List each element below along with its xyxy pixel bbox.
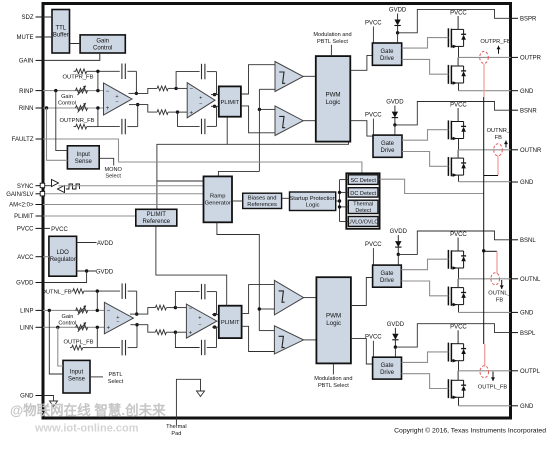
svg-text:−: − bbox=[107, 309, 111, 315]
node A1 output bottom bbox=[136, 103, 139, 106]
wire gate drive 3 to low-side gate bbox=[401, 281, 448, 296]
wire A1 bottom output to A2 bbox=[129, 104, 138, 106]
node GVDD gate drive 2 bbox=[393, 123, 396, 126]
arrow OUTNR_FB bbox=[505, 141, 507, 148]
svg-text:Drive: Drive bbox=[380, 370, 395, 376]
wire LINP input line bbox=[43, 309, 104, 311]
svg-text:PLIMIT: PLIMIT bbox=[147, 212, 167, 218]
red feedback segment OUTNL bbox=[496, 251, 498, 273]
wire RINP input line bbox=[43, 90, 104, 92]
wire Ramp top output to comparator bus bbox=[218, 171, 259, 176]
wire LINN input line bbox=[43, 326, 104, 328]
wire bottom feedback rail opamp A3 bbox=[97, 347, 120, 349]
resistor R4 bottom bbox=[155, 330, 166, 335]
node A2 output top bbox=[213, 93, 216, 96]
capacitor C-fb top A2 bbox=[201, 64, 203, 80]
wire top feedback rail opamp A2 bbox=[176, 72, 200, 89]
svg-text:PBTL: PBTL bbox=[109, 372, 123, 378]
wire PWM1 to Gate Drive 2 bbox=[350, 121, 373, 136]
wire GVDD to Gate Drive 2 bbox=[394, 125, 396, 135]
svg-text:Regulator: Regulator bbox=[50, 257, 76, 263]
svg-text:Control: Control bbox=[58, 101, 76, 107]
svg-text:PVCC: PVCC bbox=[450, 325, 467, 331]
svg-text:RINN: RINN bbox=[19, 106, 34, 112]
block Gate Drive 3 bbox=[373, 265, 402, 287]
wire output node half-bridge 3 bbox=[458, 268, 460, 279]
wire MONO Select bbox=[99, 158, 114, 165]
node ramp branch CMP2 bbox=[258, 108, 261, 111]
svg-text:FB: FB bbox=[496, 297, 503, 303]
resistor OUTPL_FB feedback bbox=[70, 347, 72, 349]
wire PBTL Select bbox=[90, 376, 103, 378]
wire PLIMIT to comparator CMP1 bbox=[241, 65, 275, 94]
wire PLIMIT to comparator CMP2 bbox=[241, 106, 275, 133]
wire source Q6 to GND bbox=[458, 305, 460, 313]
capacitor C-fb bottom A1 bbox=[121, 119, 123, 135]
wire Thermal Pad bbox=[176, 379, 200, 425]
wire PVCC to Gate Drive 3 bbox=[372, 248, 374, 265]
wire A3 top output to A4 bbox=[130, 313, 137, 315]
transistor Q4 low-side NMOS bbox=[447, 157, 449, 176]
wire feedback column (black) bbox=[483, 97, 485, 344]
svg-text:Select: Select bbox=[105, 174, 121, 180]
svg-text:Input: Input bbox=[77, 152, 91, 158]
arrow OUTPL_FB down bbox=[492, 372, 494, 381]
svg-text:Control: Control bbox=[93, 46, 112, 52]
wire PVCC to Gate Drive 4 bbox=[372, 341, 374, 357]
wire LINP tap to Input Sense 2 bbox=[49, 310, 63, 374]
wire PWM1 modulation bus (to ramp sync) bbox=[157, 142, 349, 210]
svg-text:PBTL Select: PBTL Select bbox=[318, 383, 349, 389]
svg-text:GVDD: GVDD bbox=[96, 269, 114, 275]
wire ramp to CMP4 bbox=[259, 330, 274, 332]
svg-text:GND: GND bbox=[20, 394, 34, 400]
svg-text:PVCC: PVCC bbox=[450, 10, 467, 16]
variable resistor gain RINP bbox=[76, 88, 88, 93]
capacitor C-fb bottom A4 bbox=[201, 340, 203, 355]
block PLIMIT Reference bbox=[136, 209, 177, 226]
wire detect stack bus bbox=[339, 180, 341, 222]
node GVDD bbox=[85, 269, 88, 272]
wire GVDD to Gate Drive 4 bbox=[394, 347, 396, 357]
svg-text:PLIMIT: PLIMIT bbox=[221, 100, 240, 106]
block DC Detect bbox=[348, 188, 378, 197]
node GVDD gate drive 1 bbox=[396, 31, 399, 34]
ground symbol (left) bbox=[50, 401, 58, 407]
svg-text:GND: GND bbox=[520, 89, 534, 95]
resistor R2 top bbox=[157, 86, 168, 91]
svg-text:PLIMIT: PLIMIT bbox=[221, 320, 240, 326]
svg-text:PVCC: PVCC bbox=[365, 20, 382, 26]
op-amp A1 first integrator R channel bbox=[104, 83, 133, 115]
svg-text:Ramp: Ramp bbox=[210, 194, 225, 200]
node A4 output bottom bbox=[213, 325, 216, 328]
wire PVCC to drain Q7 bbox=[457, 330, 459, 343]
block Ramp Generator bbox=[204, 176, 233, 222]
wire PLIMIT bottom to modulation bus bbox=[226, 117, 228, 145]
wire bootstrap to BS pin 4 bbox=[395, 324, 510, 347]
wire PLIMIT2 to comparator CMP3 bbox=[242, 285, 275, 314]
block protection detect stack bbox=[346, 173, 379, 229]
wire Biases to Startup Protection bbox=[282, 197, 290, 199]
svg-text:OUTPR_FB: OUTPR_FB bbox=[480, 39, 511, 45]
wire bootstrap to BS pin 3 bbox=[398, 231, 511, 254]
svg-text:Gain: Gain bbox=[96, 39, 109, 45]
svg-text:OUTPR_FB: OUTPR_FB bbox=[63, 75, 94, 81]
svg-text:Gate: Gate bbox=[381, 141, 395, 147]
svg-text:Pad: Pad bbox=[171, 431, 181, 437]
svg-text:PVCC: PVCC bbox=[450, 232, 467, 238]
wire OUTNR feedback hop bbox=[484, 175, 498, 177]
node GVDD gate drive 3 bbox=[397, 253, 400, 256]
wire PVCC to drain Q5 bbox=[457, 238, 459, 251]
chip boundary border bbox=[43, 4, 511, 419]
capacitor C-fb top A4 bbox=[201, 284, 203, 300]
transistor Q7 high-side NMOS bbox=[447, 343, 449, 362]
svg-text:GVDD: GVDD bbox=[16, 281, 34, 287]
svg-text:LDO: LDO bbox=[57, 250, 70, 256]
block Gate Drive 4 bbox=[373, 357, 402, 379]
node stack bus thermal bbox=[338, 205, 341, 208]
pin OUTPR bbox=[511, 56, 518, 58]
svg-text:Modulation and: Modulation and bbox=[313, 32, 351, 38]
wire RINP tap to Input Sense bbox=[56, 91, 68, 151]
svg-text:DC Detect: DC Detect bbox=[350, 191, 376, 197]
red ellipse OUTNR_FB bbox=[494, 144, 503, 156]
waveform square wave glyph bbox=[66, 184, 80, 189]
wire gate drive 1 to high-side gate bbox=[402, 38, 449, 49]
svg-text:Logic: Logic bbox=[326, 320, 341, 327]
wire A3 bottom output to A4 bbox=[131, 324, 138, 326]
block Startup Protection Logic bbox=[290, 192, 336, 211]
wire LDO to AVDD bbox=[77, 242, 97, 244]
arrow OUTPR_FB bbox=[498, 46, 500, 54]
wire label to PWM Logic top bbox=[330, 45, 332, 56]
wire Ramp bottom output to lower comparator bus bbox=[217, 222, 259, 330]
svg-text:Thermal: Thermal bbox=[166, 424, 187, 430]
wire AM<2:0> to Ramp Generator bbox=[43, 204, 204, 206]
comparator CMP2 bbox=[275, 106, 303, 136]
wire GAIN/SLV to Ramp Generator bbox=[45, 193, 204, 195]
svg-text:GVDD: GVDD bbox=[390, 229, 408, 235]
arrow OUTNL_FB down bbox=[501, 280, 503, 289]
wire feedback branch to OUTNL bbox=[484, 250, 497, 252]
svg-text:References: References bbox=[247, 202, 277, 208]
wire top feedback rail opamp A1 bbox=[98, 70, 120, 72]
block PWM Logic (R channel) bbox=[316, 56, 351, 142]
resistor OUTPR_FB feedback bbox=[74, 70, 77, 72]
red feedback segment OUTNR bbox=[497, 156, 499, 176]
svg-text:+: + bbox=[189, 110, 193, 116]
svg-text:SDZ: SDZ bbox=[22, 15, 34, 21]
wire CMP4 output to PWM Logic 2 bbox=[304, 339, 317, 341]
svg-text:PVCC: PVCC bbox=[365, 335, 382, 341]
wire GND pin to ground bbox=[43, 396, 54, 402]
svg-text:TTL: TTL bbox=[55, 26, 66, 32]
wire SYNC to Ramp Generator bbox=[45, 185, 52, 187]
wire TTL Buffer to Gain Control bbox=[70, 43, 81, 45]
svg-text:Input: Input bbox=[70, 370, 84, 376]
wire output node half-bridge 2 bbox=[458, 139, 460, 150]
svg-text:+: + bbox=[107, 326, 111, 332]
svg-text:OUTPR: OUTPR bbox=[520, 56, 542, 62]
svg-text:Control: Control bbox=[58, 321, 76, 327]
pin BSNR bbox=[511, 109, 518, 111]
svg-text:Detect: Detect bbox=[355, 208, 371, 214]
block Gate Drive 1 bbox=[372, 43, 401, 65]
svg-text:Copyright © 2016, Texas Instru: Copyright © 2016, Texas Instruments Inco… bbox=[394, 427, 546, 435]
svg-text:−: − bbox=[189, 306, 193, 312]
svg-text:BSPR: BSPR bbox=[520, 17, 537, 23]
transistor Q1 high-side NMOS bbox=[447, 28, 449, 47]
pin pad GAIN/SLV bbox=[40, 191, 45, 196]
wire output node half-bridge 4 bbox=[458, 361, 460, 371]
svg-text:Gate: Gate bbox=[380, 271, 394, 277]
wire source Q2 to GND bbox=[458, 83, 460, 91]
svg-text:MONO: MONO bbox=[104, 167, 122, 173]
wire PVCC to Gate Drive 2 bbox=[372, 119, 374, 136]
wire PWM2 to Gate Drive 3 bbox=[351, 278, 373, 306]
svg-text:BSPL: BSPL bbox=[520, 331, 536, 337]
svg-text:PLIMIT: PLIMIT bbox=[14, 214, 34, 220]
pin BSPR bbox=[511, 17, 518, 19]
wire ramp distribution vertical upper bbox=[258, 89, 260, 171]
svg-text:GVDD: GVDD bbox=[387, 322, 405, 328]
svg-text:OUTNL: OUTNL bbox=[520, 277, 541, 283]
transistor Q2 low-side NMOS bbox=[447, 65, 449, 84]
svg-text:PBTL Select: PBTL Select bbox=[317, 39, 348, 45]
svg-text:−: − bbox=[199, 101, 202, 107]
svg-text:−: − bbox=[115, 99, 118, 105]
pin OUTNR bbox=[511, 149, 518, 151]
wire gate drive 1 to low-side gate bbox=[402, 59, 449, 74]
svg-text:Gate: Gate bbox=[381, 363, 395, 369]
node RINN junction bbox=[45, 106, 48, 109]
diode D1 GVDD bbox=[397, 14, 399, 20]
wire bottom rail to output node bbox=[137, 105, 139, 127]
svg-text:OUTNL_FB: OUTNL_FB bbox=[41, 289, 71, 295]
transistor Q6 low-side NMOS bbox=[447, 287, 449, 306]
svg-text:Logic: Logic bbox=[306, 203, 320, 209]
wire SDZ to TTL Buffer bbox=[43, 16, 52, 18]
svg-text:Thermal: Thermal bbox=[353, 202, 373, 208]
svg-text:@物联网在线 智慧.创未来: @物联网在线 智慧.创未来 bbox=[10, 402, 166, 418]
wire gate drive 4 to low-side gate bbox=[402, 374, 449, 389]
wire GAIN pin to Gain Control bbox=[43, 53, 100, 60]
svg-text:BSNL: BSNL bbox=[520, 238, 536, 244]
comparator CMP4 bbox=[274, 326, 303, 354]
block Biases and References bbox=[243, 193, 282, 208]
svg-text:Drive: Drive bbox=[380, 148, 395, 154]
svg-text:Gain: Gain bbox=[61, 94, 73, 100]
svg-text:PWM: PWM bbox=[325, 91, 340, 98]
node A4 output top bbox=[213, 313, 216, 316]
svg-text:OUTPL_FB: OUTPL_FB bbox=[64, 339, 94, 345]
wire PWM2 to Gate Drive 4 bbox=[351, 338, 373, 364]
svg-text:Sense: Sense bbox=[68, 377, 86, 383]
red feedback segment OUTPR bbox=[483, 64, 485, 97]
diode D3 GVDD bbox=[397, 235, 399, 241]
block SC Detect bbox=[348, 175, 378, 185]
wire ramp to CMP2 bbox=[259, 108, 275, 110]
svg-text:PWM: PWM bbox=[326, 312, 341, 319]
block PWM Logic (L channel) bbox=[316, 277, 351, 363]
svg-text:PVCC: PVCC bbox=[365, 112, 382, 118]
svg-text:Reference: Reference bbox=[142, 219, 170, 225]
svg-text:GVDD: GVDD bbox=[389, 8, 407, 14]
wire output node half-bridge 1 bbox=[458, 46, 460, 57]
svg-text:SYNC: SYNC bbox=[17, 184, 34, 190]
wire ramp to CMP1 bbox=[259, 88, 275, 90]
wire RINN input line bbox=[43, 107, 104, 109]
svg-text:Drive: Drive bbox=[380, 56, 395, 62]
wire source Q4 to GND bbox=[458, 175, 460, 182]
pin GND bbox=[511, 311, 518, 313]
svg-text:Sense: Sense bbox=[75, 159, 93, 165]
transistor Q8 low-side NMOS bbox=[447, 379, 449, 398]
pin BSNL bbox=[511, 239, 518, 241]
svg-text:OUTNL_: OUTNL_ bbox=[488, 291, 511, 297]
wire gate drive 2 to low-side gate bbox=[402, 152, 448, 167]
block PLIMIT (R channel) bbox=[219, 86, 241, 116]
wire AVCC to LDO bbox=[43, 256, 49, 258]
wire PWM2 label stub bbox=[332, 363, 334, 374]
svg-text:OUTPNR_FB: OUTPNR_FB bbox=[59, 118, 94, 124]
resistor R4 top bbox=[155, 305, 166, 310]
svg-text:Drive: Drive bbox=[380, 278, 395, 284]
wire PVCC to Gate Drive 1 bbox=[372, 27, 374, 44]
svg-text:www.iot-online.com: www.iot-online.com bbox=[34, 423, 139, 435]
wire ramp to CMP3 bbox=[259, 308, 274, 310]
wire bottom feedback rail opamp A1 bbox=[98, 126, 120, 128]
wire CMP1 output to PWM Logic bbox=[303, 75, 316, 77]
variable resistor gain LINN bbox=[76, 325, 88, 330]
svg-text:FB: FB bbox=[495, 135, 502, 141]
wire PLIMIT pin to PLIMIT Reference bbox=[43, 215, 136, 217]
svg-text:BSNR: BSNR bbox=[520, 108, 537, 114]
wire source Q8 to GND bbox=[458, 397, 460, 406]
variable resistor gain LINP bbox=[76, 308, 88, 313]
node stack bus startup bbox=[338, 199, 341, 202]
wire Ramp Generator to Biases bbox=[232, 200, 243, 202]
op-amp A3 first integrator L channel bbox=[104, 302, 133, 334]
wire LINN tap to Input Sense 2 bbox=[58, 327, 63, 366]
block Thermal Detect bbox=[348, 200, 378, 213]
svg-text:Select: Select bbox=[108, 379, 124, 385]
svg-text:OUTNR_: OUTNR_ bbox=[487, 128, 511, 134]
svg-text:Buffer: Buffer bbox=[53, 33, 69, 39]
wire bottom feedback rail opamp A2 bbox=[178, 112, 200, 126]
wire gate drive 4 to high-side gate bbox=[402, 352, 449, 363]
svg-text:SC Detect: SC Detect bbox=[350, 178, 376, 184]
red ellipse OUTPL_FB bbox=[480, 366, 489, 378]
block Input Sense (L channel) bbox=[63, 360, 90, 393]
pin GND bbox=[511, 90, 518, 92]
comparator CMP1 bbox=[275, 62, 303, 92]
svg-text:OUTPL: OUTPL bbox=[520, 369, 541, 375]
wire bootstrap to BS pin 1 bbox=[398, 9, 511, 32]
resistor R2 bottom bbox=[157, 110, 168, 115]
pin GND bbox=[511, 181, 518, 183]
block Input Sense (R channel) bbox=[67, 146, 99, 169]
wire top feedback rail opamp A3 bbox=[97, 290, 120, 292]
transistor Q3 high-side NMOS bbox=[447, 120, 449, 139]
svg-text:Biases and: Biases and bbox=[248, 195, 277, 201]
red ellipse OUTPR_FB bbox=[480, 51, 489, 63]
svg-text:GVDD: GVDD bbox=[386, 100, 404, 106]
svg-text:−: − bbox=[106, 89, 110, 95]
red ellipse OUTNL_FB bbox=[491, 273, 500, 285]
wire Startup Protection to stack bbox=[336, 200, 340, 202]
svg-text:PVCC: PVCC bbox=[51, 227, 68, 233]
wire PLIMIT2 to comparator CMP4 bbox=[242, 326, 275, 351]
svg-text:GND: GND bbox=[520, 180, 534, 186]
node stack bus DC bbox=[338, 191, 341, 194]
node GVDD gate drive 4 bbox=[394, 345, 397, 348]
wire bootstrap to BS pin 2 bbox=[395, 102, 511, 125]
wire PVCC to drain Q3 bbox=[457, 108, 459, 121]
wire PLIMIT Reference to PLIMIT L bbox=[156, 226, 227, 306]
node RINP junction bbox=[54, 89, 57, 92]
block Gain Control (R channel) bbox=[80, 35, 125, 53]
wire SC Detect to feedback column bbox=[380, 179, 484, 193]
node A3 output bottom bbox=[135, 323, 138, 326]
node LINP junction bbox=[48, 309, 51, 312]
svg-text:+: + bbox=[198, 315, 201, 321]
wire gate drive 2 to high-side gate bbox=[402, 130, 448, 141]
svg-text:AVDD: AVDD bbox=[97, 241, 114, 247]
comparator CMP3 bbox=[274, 280, 303, 315]
wire CMP3 output to PWM Logic 2 bbox=[304, 297, 317, 299]
wire A2 outputs to PLIMIT bbox=[211, 94, 219, 96]
wire A1 top output to A2 bbox=[129, 92, 137, 94]
svg-text:PVCC: PVCC bbox=[17, 227, 34, 233]
svg-text:Gain: Gain bbox=[61, 314, 73, 320]
pin OUTNL bbox=[511, 278, 518, 280]
pin OUTPL bbox=[511, 370, 518, 372]
wire PVCC to drain Q1 bbox=[457, 16, 459, 29]
node feedback column branch bbox=[482, 249, 485, 252]
wire PWM1 to Gate Drive 1 bbox=[350, 55, 372, 70]
svg-text:MUTE: MUTE bbox=[17, 35, 34, 41]
svg-text:FAULTZ: FAULTZ bbox=[12, 137, 34, 143]
svg-text:Logic: Logic bbox=[326, 99, 341, 106]
svg-text:GAIN/SLV: GAIN/SLV bbox=[6, 192, 33, 198]
svg-text:+: + bbox=[106, 106, 110, 112]
svg-text:AVCC: AVCC bbox=[17, 255, 34, 261]
op-amp A2 second integrator R channel bbox=[187, 83, 215, 118]
svg-text:LINP: LINP bbox=[20, 309, 33, 315]
block TTL Buffer U1 bbox=[52, 10, 70, 54]
node A4 input top bbox=[174, 306, 177, 309]
wire RINN tap to Input Sense bbox=[47, 108, 68, 160]
node A2 output bottom bbox=[213, 105, 216, 108]
node A3 output top bbox=[135, 312, 138, 315]
node A1 output top bbox=[135, 92, 138, 95]
capacitor C-fb bottom A2 bbox=[201, 119, 203, 135]
svg-text:PVCC: PVCC bbox=[450, 102, 467, 108]
svg-text:GND: GND bbox=[520, 404, 534, 410]
svg-text:PVCC: PVCC bbox=[365, 242, 382, 248]
buffer SYNC bidirectional bbox=[52, 180, 59, 187]
capacitor C-fb top A3 bbox=[121, 283, 123, 299]
node ramp branch CMP3 bbox=[258, 307, 261, 310]
node A2 input top bbox=[174, 87, 177, 90]
op-amp A4 second integrator L channel bbox=[186, 304, 217, 338]
capacitor C-fb top A1 bbox=[121, 64, 123, 80]
svg-text:OUTNR: OUTNR bbox=[520, 148, 542, 154]
svg-text:Startup Protection: Startup Protection bbox=[289, 196, 335, 202]
